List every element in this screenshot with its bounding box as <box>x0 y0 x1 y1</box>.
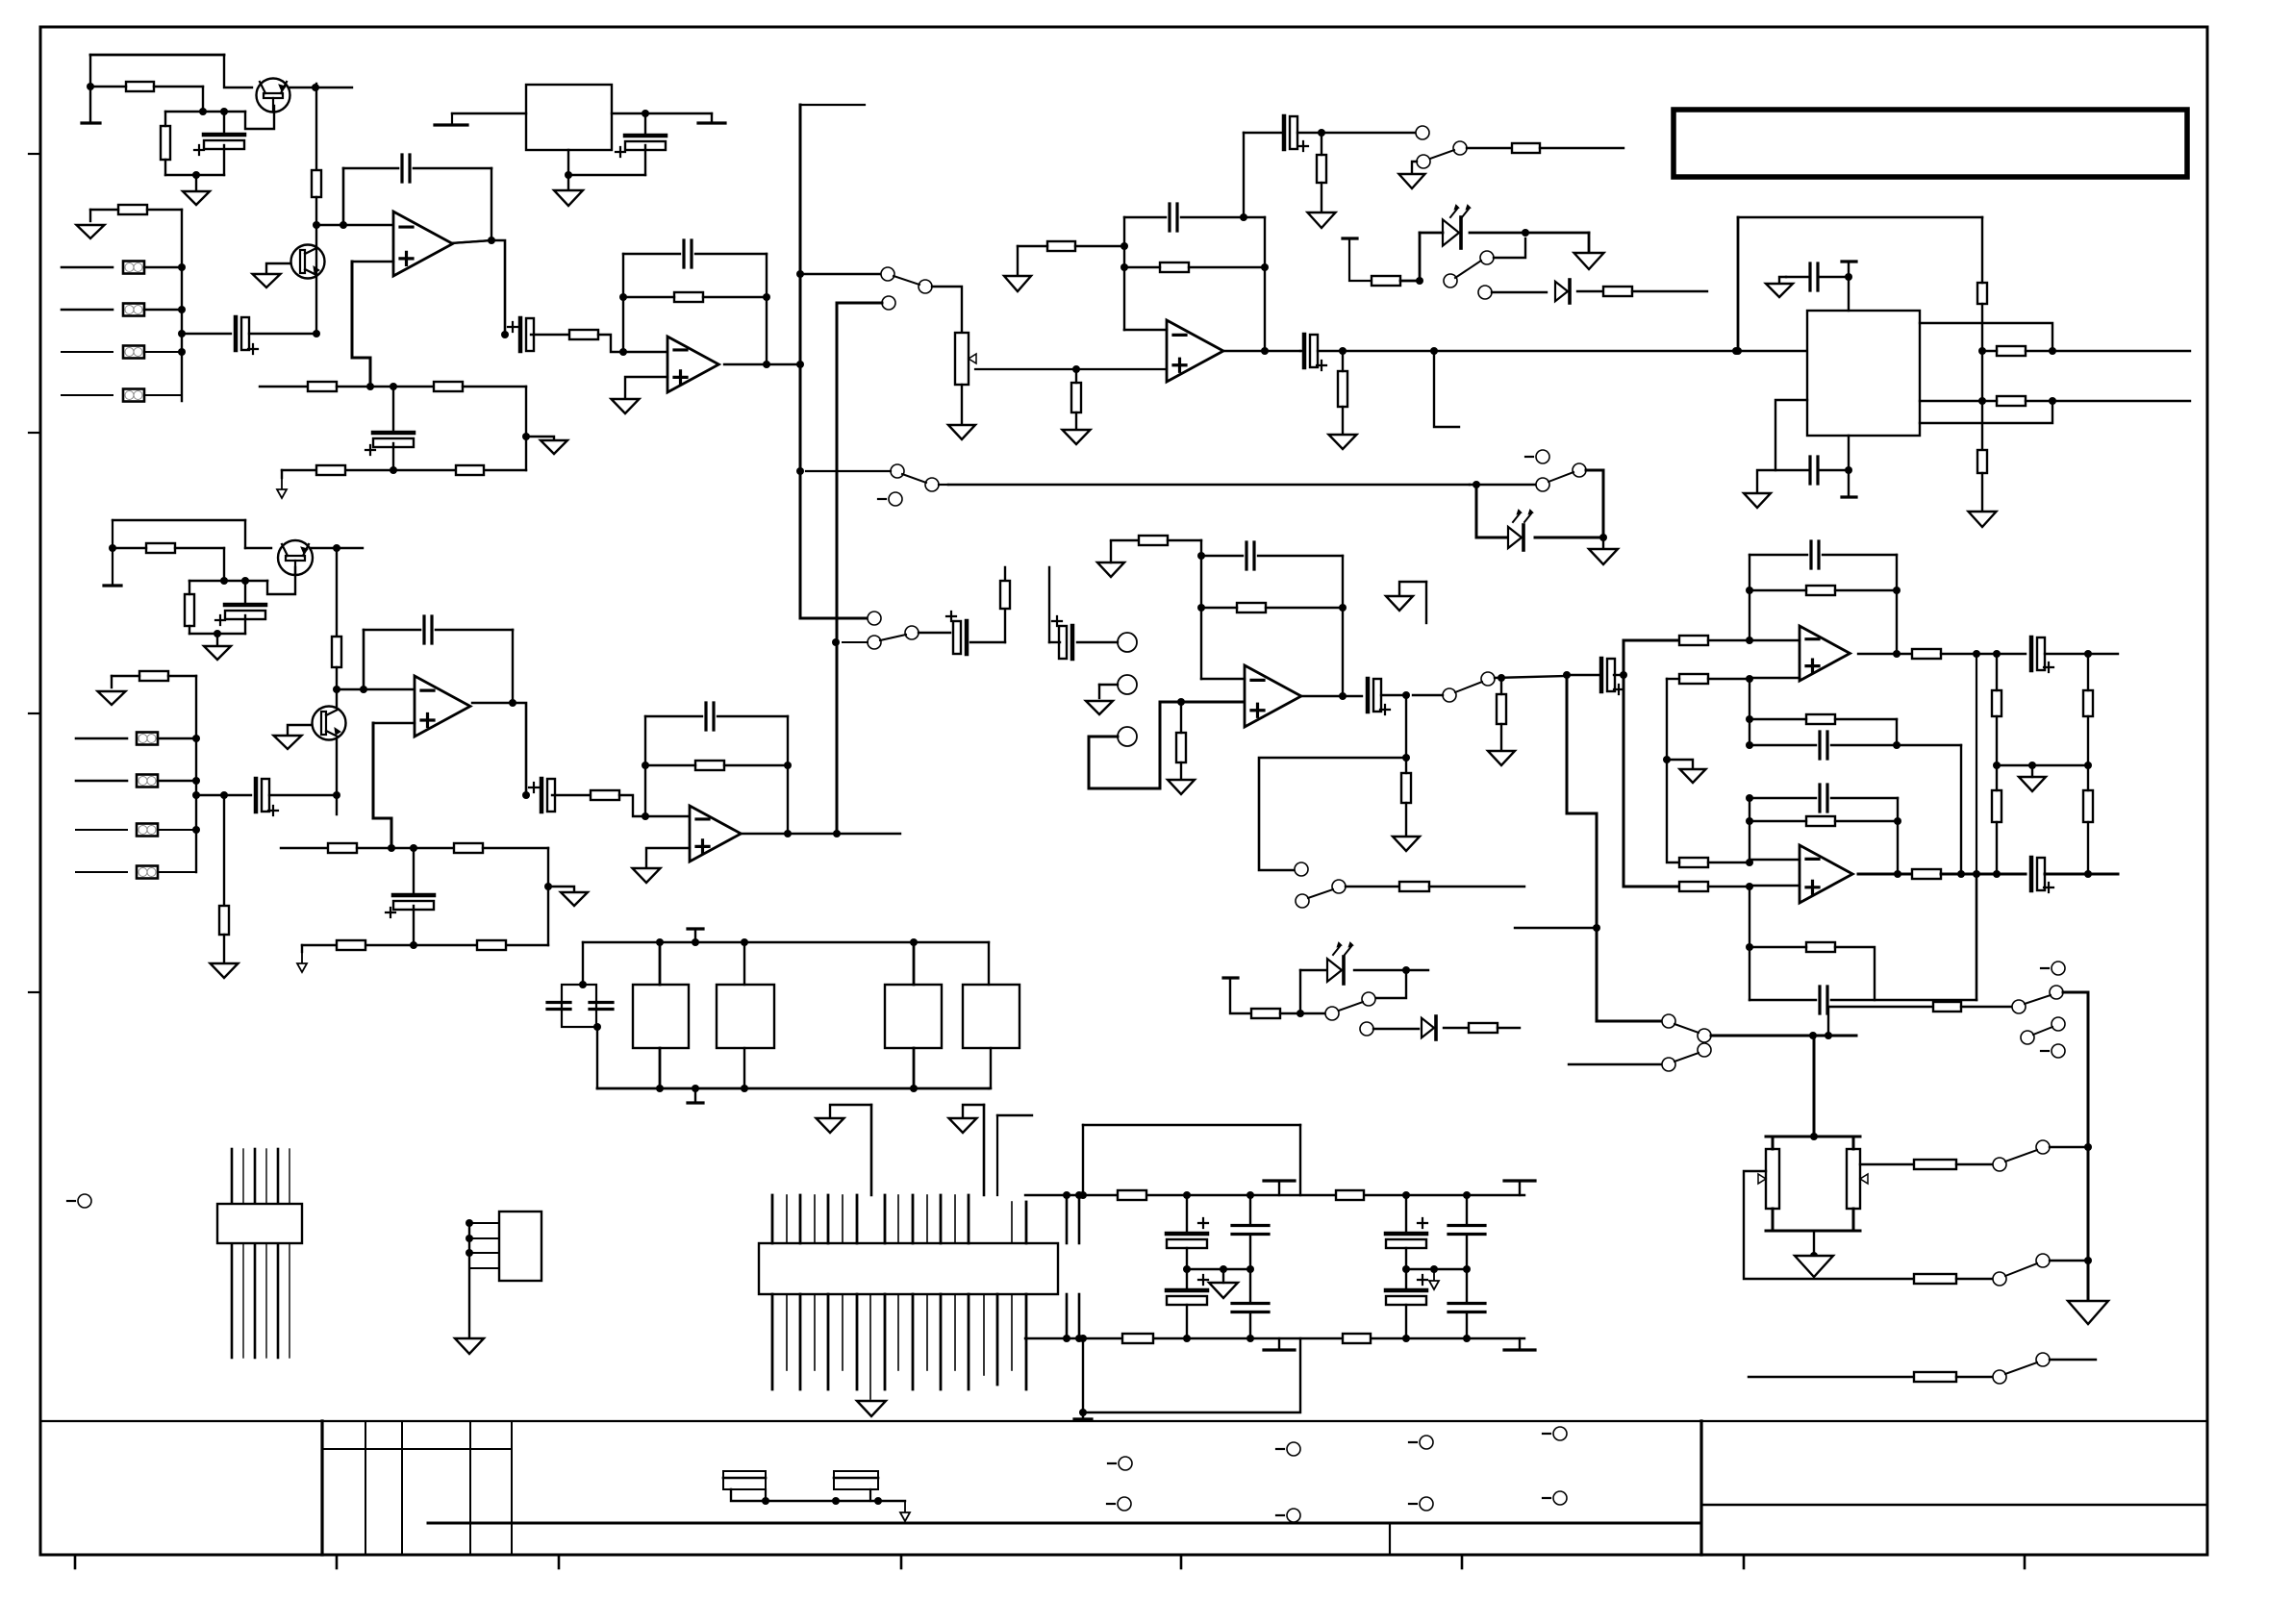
wire <box>1322 132 1416 134</box>
wire <box>996 1115 998 1195</box>
wire <box>62 266 113 269</box>
wire <box>1066 1294 1069 1338</box>
wire <box>582 942 584 985</box>
wire <box>644 716 646 765</box>
wire <box>1466 1269 1468 1303</box>
wire <box>1412 162 1417 174</box>
wire <box>1124 266 1160 268</box>
wire <box>1168 539 1201 541</box>
resistor R38 <box>1401 773 1411 803</box>
wire <box>1405 1305 1407 1338</box>
wire <box>62 394 113 396</box>
electrolytic capacitor C32 <box>1167 1288 1207 1293</box>
wire <box>513 703 526 795</box>
switch contact S12c <box>2050 986 2063 999</box>
wire <box>765 1489 767 1501</box>
wire <box>1405 1269 1407 1290</box>
fuse F2 <box>834 1471 878 1489</box>
wire <box>158 871 196 873</box>
ground <box>612 399 640 413</box>
wire <box>1419 233 1422 281</box>
wire <box>1201 607 1237 609</box>
wire <box>1124 216 1166 218</box>
junction J140 <box>1183 1265 1191 1273</box>
regulator U3 <box>526 85 612 150</box>
wire <box>548 887 574 892</box>
junction J127 <box>656 1085 664 1092</box>
wire <box>913 1048 916 1088</box>
ground <box>1399 174 1425 188</box>
wire <box>223 548 225 581</box>
junction J70 <box>784 762 792 769</box>
resistor R51 <box>1992 690 2001 716</box>
potentiometer RV3 <box>1847 1149 1860 1209</box>
wire <box>76 780 127 783</box>
wire <box>1186 1248 1188 1269</box>
test point <box>67 1200 75 1202</box>
junction J145 <box>1463 1265 1471 1273</box>
junction J72 <box>833 830 841 837</box>
junction J41 <box>565 171 572 179</box>
wire <box>1920 401 2052 423</box>
wire <box>90 54 224 57</box>
wire <box>1470 484 1536 486</box>
wire <box>1623 640 1625 675</box>
ground <box>1744 493 1771 508</box>
junction J86 <box>1402 966 1410 974</box>
junction J18 <box>366 383 374 390</box>
junction J124 <box>910 938 918 946</box>
wire <box>1996 765 1998 790</box>
resistor R4 <box>312 170 321 197</box>
wire <box>1852 1137 1855 1149</box>
wire <box>1750 797 1816 799</box>
wire <box>1201 678 1245 680</box>
wire <box>1708 678 1800 679</box>
wire <box>244 520 246 548</box>
wire <box>1244 132 1281 134</box>
wire <box>1186 1269 1188 1290</box>
junction J53 <box>333 544 340 552</box>
wire <box>302 944 414 946</box>
switch contact S5c <box>905 626 919 639</box>
wire <box>2031 765 2033 777</box>
title block line <box>1389 1523 1391 1555</box>
wire <box>393 469 526 471</box>
wire <box>612 112 712 114</box>
electrolytic capacitor C31 <box>1167 1232 1207 1237</box>
wire <box>961 385 963 425</box>
wire <box>1744 1171 1914 1279</box>
electrolytic capacitor C28 <box>2029 858 2034 890</box>
wire <box>1342 556 1344 696</box>
wire <box>1750 999 1816 1001</box>
capacitor C34 <box>1232 1304 1269 1312</box>
transistor Q3 <box>278 540 313 575</box>
junction J34 <box>1318 129 1325 137</box>
wire <box>1813 1036 1816 1137</box>
wire <box>2050 1146 2088 1148</box>
op-amp U2A <box>1167 320 1223 382</box>
wire <box>1831 797 1898 799</box>
junction J43 <box>1734 347 1742 355</box>
wire <box>1976 654 1977 874</box>
wire <box>336 548 338 637</box>
wire <box>1300 969 1329 971</box>
wire <box>451 240 491 243</box>
junction J57 <box>192 791 200 799</box>
resistor R8 <box>456 465 484 475</box>
wire <box>168 675 196 677</box>
capacitor C12 <box>1810 457 1818 484</box>
capacitor C27 <box>1820 785 1827 812</box>
ground <box>1574 253 1604 269</box>
junction J108 <box>1973 870 1980 878</box>
junction J23 <box>619 293 627 301</box>
junction J126 <box>593 1023 601 1031</box>
junction J67 <box>410 941 417 949</box>
ground <box>297 952 307 972</box>
frame tick <box>1461 1555 1464 1568</box>
junction J44 <box>1978 347 1986 355</box>
wire <box>1078 1195 1081 1243</box>
wire <box>1996 654 1998 690</box>
wire <box>1708 886 1800 887</box>
wire <box>1259 758 1406 870</box>
wire <box>2087 822 2089 874</box>
wire <box>2045 873 2118 876</box>
switch contact S8c <box>1573 463 1586 477</box>
resistor R52 <box>1992 790 2001 822</box>
wire <box>1400 280 1420 283</box>
wire <box>1515 927 1597 929</box>
wire <box>989 1087 991 1089</box>
wire <box>1981 304 1983 351</box>
title block line <box>1701 1504 2207 1507</box>
junction J76 <box>1197 604 1205 612</box>
wire <box>1099 684 1118 686</box>
wire <box>1444 1027 1469 1029</box>
wire <box>1405 695 1407 758</box>
resistor R50 <box>1912 869 1941 879</box>
junction J8 <box>192 171 200 179</box>
capacitor C3 <box>402 155 410 182</box>
wire <box>1749 1376 1914 1378</box>
wire <box>1180 762 1182 780</box>
wire <box>724 363 800 365</box>
connector P2 <box>1118 675 1137 694</box>
junction J138 <box>1402 1191 1410 1199</box>
wire <box>1835 718 1897 720</box>
ground <box>1795 1256 1833 1277</box>
switch contact S1a <box>881 267 894 281</box>
wire <box>1981 401 1983 450</box>
junction J98 <box>1746 741 1753 749</box>
wire <box>1494 238 1525 258</box>
wire <box>932 287 962 333</box>
junction J152 <box>466 1219 473 1227</box>
wire <box>312 547 363 549</box>
junction J104 <box>1894 817 1901 825</box>
junction J27 <box>796 270 804 278</box>
IC U8 <box>217 1204 302 1243</box>
junction J136 <box>1183 1191 1191 1199</box>
wire <box>1982 350 1997 352</box>
wire <box>1775 400 1807 470</box>
test point <box>1107 1503 1115 1505</box>
potentiometer block bottom rail <box>1766 1230 1860 1233</box>
switch contact S10b <box>1698 1029 1711 1042</box>
junction J61 <box>360 686 367 693</box>
transistor Q2 <box>291 245 325 279</box>
wire <box>625 377 667 399</box>
junction J31 <box>1261 263 1269 271</box>
junction J88 <box>1620 671 1627 679</box>
wire <box>266 263 290 274</box>
switch contact S11b <box>1698 1043 1711 1057</box>
wire <box>1280 1012 1325 1014</box>
switch lever <box>1674 1024 1699 1033</box>
wire <box>342 168 345 225</box>
switch contact S2c <box>1453 141 1467 155</box>
switch contact S2a <box>1416 126 1429 139</box>
wire <box>1956 1163 1993 1165</box>
ground <box>455 1338 484 1354</box>
junction J116 <box>1825 1032 1832 1039</box>
wire <box>144 351 182 353</box>
wire <box>830 1105 871 1118</box>
LED D1 <box>1443 219 1459 245</box>
wire <box>62 309 113 312</box>
wire bus <box>800 105 868 618</box>
op-amp U7B <box>1800 845 1852 903</box>
connector J1 bottom pins <box>771 1294 774 1389</box>
junction J80 <box>1498 674 1505 682</box>
switch contact S4b <box>925 478 939 491</box>
wire <box>1823 554 1897 556</box>
wire <box>1981 351 1983 401</box>
junction J54 <box>333 686 340 693</box>
wire <box>843 641 868 643</box>
wire <box>1540 147 1624 149</box>
wire <box>245 547 271 549</box>
wire <box>2063 991 2088 994</box>
wire <box>165 111 245 112</box>
wire <box>1941 873 2026 876</box>
resistor R46 <box>1806 586 1835 595</box>
switch contact S16a <box>1993 1370 2006 1384</box>
junction J29 <box>1120 242 1128 250</box>
wire <box>224 55 252 87</box>
junction J68 <box>642 812 649 820</box>
ground <box>1488 751 1515 765</box>
wire <box>1750 946 1806 948</box>
switch contact S15b <box>2036 1254 2050 1267</box>
capacitor C26 <box>1820 732 1827 759</box>
electrolytic capacitor C10 <box>625 134 666 138</box>
junction J90 <box>1746 637 1753 644</box>
wire <box>337 688 415 691</box>
wire <box>1632 290 1707 292</box>
junction J9 <box>178 263 186 271</box>
op-amp U6A <box>1245 665 1301 727</box>
wire <box>525 387 527 470</box>
switch contact S3b <box>1480 251 1494 264</box>
switch contact S10a <box>1662 1014 1675 1028</box>
wire <box>623 253 680 255</box>
resistor R13 <box>1160 262 1189 272</box>
resistor R56 <box>1914 1160 1956 1169</box>
junction J75 <box>1197 552 1205 560</box>
wire <box>451 240 491 243</box>
switch contact S8a <box>1536 478 1549 491</box>
wire <box>1083 1338 1300 1412</box>
junction J51 <box>241 577 249 585</box>
ground <box>1766 284 1793 297</box>
resistor R18 <box>1338 371 1347 407</box>
wire <box>436 629 513 632</box>
wire <box>164 112 166 126</box>
wire <box>468 1223 470 1338</box>
resistor R7 <box>316 465 345 475</box>
resistor R53 <box>2083 690 2093 716</box>
resistor R9 <box>569 330 598 339</box>
wire <box>196 794 251 796</box>
wire <box>597 1087 989 1090</box>
switch lever <box>1548 472 1573 482</box>
junction J106 <box>1894 870 1901 878</box>
electrolytic capacitor C1 <box>204 133 244 137</box>
junction J10 <box>178 306 186 313</box>
wire <box>1078 1294 1081 1338</box>
junction J128 <box>692 1085 699 1092</box>
wire <box>1976 874 1978 1000</box>
wire <box>1749 887 1750 1000</box>
wire <box>315 84 317 170</box>
wire <box>596 1027 598 1088</box>
wire <box>646 848 690 868</box>
junction J81 <box>1402 754 1410 762</box>
wire <box>189 626 190 634</box>
wire <box>1772 1209 1775 1231</box>
wire <box>1318 350 1807 352</box>
frame tick <box>29 153 40 155</box>
resistor R42 <box>1679 636 1708 645</box>
ground <box>211 963 239 978</box>
switch contact S12a <box>2041 967 2049 969</box>
test point <box>1543 1433 1550 1435</box>
junction J129 <box>741 1085 748 1092</box>
wire <box>703 296 767 298</box>
frame tick <box>1180 1555 1183 1568</box>
rail terminal <box>1504 1348 1535 1351</box>
wire <box>1786 276 1810 278</box>
resistor R39 <box>1399 882 1429 891</box>
wire <box>1466 1195 1468 1225</box>
junction J42 <box>1845 273 1852 281</box>
junction J153 <box>466 1235 473 1242</box>
wire <box>1300 350 1304 352</box>
electrolytic capacitor C25 <box>2029 637 2034 670</box>
oscillator module X4 <box>963 985 1020 1048</box>
diode D5 <box>1422 1018 1434 1037</box>
switch contact S6b <box>1481 672 1495 686</box>
wire <box>526 437 554 440</box>
wire <box>352 261 393 263</box>
ground <box>1393 837 1420 851</box>
test point <box>1276 1448 1284 1450</box>
wire <box>1982 400 1997 402</box>
junction J36 <box>1522 229 1529 237</box>
wire <box>1354 969 1428 971</box>
wire <box>1623 674 1624 676</box>
wire <box>154 86 203 87</box>
connector J1 <box>759 1243 1058 1294</box>
junction J52 <box>214 630 221 637</box>
IC U4 <box>1807 311 1920 436</box>
wire <box>1470 232 1589 235</box>
wire <box>1602 537 1604 549</box>
wire <box>724 764 788 766</box>
junction J89 <box>1663 756 1671 763</box>
resistor R27 <box>219 906 229 935</box>
ground <box>857 1401 886 1416</box>
wire <box>1249 1269 1251 1303</box>
junction J101 <box>1746 883 1753 890</box>
junction J147 <box>1183 1335 1191 1342</box>
wire <box>1996 822 1998 874</box>
title block top line <box>40 1420 2207 1422</box>
rail terminal <box>1264 1179 1295 1182</box>
wire <box>469 1237 499 1239</box>
junction J91 <box>1746 675 1753 683</box>
junction J50 <box>220 577 228 585</box>
wire <box>1429 886 1524 887</box>
wire <box>1243 133 1245 217</box>
resistor R12 <box>1047 241 1075 251</box>
resistor R28 <box>328 843 357 853</box>
capacitor C15 <box>424 616 432 643</box>
wire <box>343 167 398 170</box>
ground <box>561 892 588 906</box>
ground <box>1329 435 1357 449</box>
junction J15 <box>340 221 347 229</box>
wire <box>659 1048 662 1088</box>
wire <box>1349 238 1372 281</box>
capacitor C37 <box>1448 1226 1485 1235</box>
junction J69 <box>642 762 649 769</box>
wire <box>282 469 393 471</box>
wire <box>223 112 225 135</box>
junction J7 <box>220 108 228 115</box>
capacitor C29 <box>547 1003 570 1010</box>
resistor R5 <box>308 382 337 391</box>
junction J94 <box>1893 650 1901 658</box>
junction J66 <box>544 883 552 890</box>
wire <box>1708 860 1800 862</box>
potentiometer RV1 <box>955 333 969 385</box>
switch contact S4a <box>891 464 904 478</box>
rail terminal <box>1842 495 1856 498</box>
wire <box>1500 724 1502 751</box>
ground <box>1097 562 1124 577</box>
junction Jp <box>1177 698 1185 706</box>
wire <box>743 1048 745 1088</box>
wire <box>112 675 139 677</box>
wire <box>1082 1412 1084 1419</box>
ground <box>541 440 567 454</box>
junction J62 <box>509 699 516 707</box>
